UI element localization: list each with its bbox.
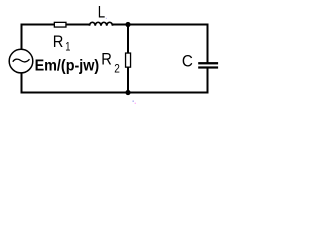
capacitor C top plate	[198, 62, 218, 64]
svg-text:2: 2	[114, 62, 120, 76]
inductor L	[90, 22, 113, 26]
wire loop: top-left corner, left branch, bottom wire, right branch up to capacitor	[22, 25, 208, 93]
label R1	[53, 32, 71, 54]
resistor R1	[54, 22, 66, 27]
svg-text:R: R	[101, 49, 112, 68]
svg-text:1: 1	[65, 40, 70, 54]
label L	[98, 3, 105, 22]
wire middle branch through R2	[127, 25, 129, 94]
resistor R2	[126, 53, 131, 67]
svg-text:C: C	[182, 51, 193, 70]
AC source circle	[9, 49, 33, 73]
stray pixel artifact near L label	[106, 18, 107, 19]
capacitor C bottom plate	[198, 66, 218, 68]
stray pixel artifact near bottom junction	[133, 101, 137, 105]
junction node bottom	[125, 90, 130, 95]
svg-text:Em/(p-jw): Em/(p-jw)	[35, 58, 100, 75]
label R2	[101, 49, 120, 75]
svg-text:L: L	[98, 3, 105, 22]
label C	[182, 51, 193, 70]
wire top-right segment: from inductor to top-right corner down to capacitor top plate	[112, 25, 207, 63]
label Em/(p-jw) source value	[35, 58, 100, 75]
AC source sine wave	[13, 59, 30, 62]
svg-text:R: R	[53, 32, 64, 51]
junction node top (L / R2 / C net)	[125, 22, 130, 27]
